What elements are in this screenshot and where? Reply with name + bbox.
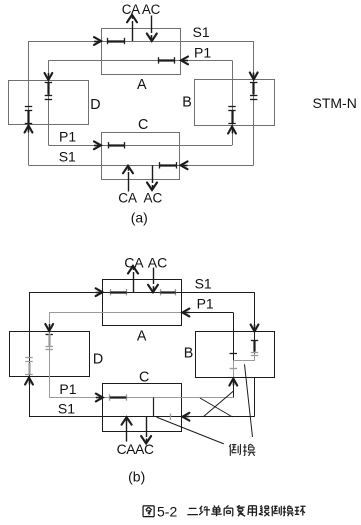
- svg-text:S1: S1: [59, 148, 76, 164]
- node A drop line CA with up arrow: [132, 21, 134, 41]
- switch in D on S1 vertical: [25, 106, 32, 108]
- wire S1 through node B: [253, 80, 255, 126]
- switch in D on P1 vertical: [45, 82, 52, 84]
- node D box (b): [10, 332, 90, 377]
- wire S1 through node D: [28, 80, 30, 125]
- node C drop line AC with down arrow: [152, 165, 154, 183]
- switch in A on S1 (left): [107, 38, 109, 44]
- wire P1 through node D: [48, 80, 50, 125]
- wire P1 right vertical (up into B): [232, 126, 234, 146]
- wire P1 bottom segment (D to C): [48, 145, 101, 147]
- wire P1 through node C (b): [103, 397, 182, 399]
- arrow P1 into A right (b): [182, 312, 189, 314]
- label daohuan (switchover) chinese: [229, 444, 231, 447]
- node C add line CA with up arrow (b): [126, 422, 128, 442]
- tick on S1 in C (b): [170, 414, 172, 420]
- svg-text:C: C: [139, 369, 149, 385]
- switch in D on S1 vertical gray (b): [25, 357, 32, 359]
- wire S1 top-left vertical (D up): [28, 41, 30, 80]
- wire loopback vertical up in B (b): [233, 332, 235, 361]
- wire loopback in C from P1 to S1 (b): [153, 398, 155, 417]
- svg-text:AC: AC: [148, 254, 167, 270]
- svg-text:D: D: [93, 351, 103, 367]
- node C add line CA with up arrow: [128, 172, 130, 192]
- wire S1 top segment (b): [29, 292, 255, 294]
- svg-text:CAAC: CAAC: [117, 442, 154, 457]
- arrow P1 into B bottom: [232, 127, 234, 134]
- wire S1 segment C to D (b): [29, 416, 103, 418]
- wire S1 right vertical into B (b): [254, 292, 256, 331]
- wire S1 through node C: [101, 165, 180, 167]
- wire S1 through node A (b): [103, 292, 182, 294]
- node A box (b): [103, 280, 182, 326]
- arrow P1 into D top (b): [49, 324, 51, 331]
- node C box: [102, 133, 180, 180]
- wire S1 through node D (b): [29, 331, 31, 377]
- caption title chinese er xian dan xiang fu yong duan dao huan huan: [189, 507, 197, 509]
- svg-text:CA: CA: [118, 190, 137, 205]
- svg-text:B: B: [182, 94, 192, 110]
- switch in B on P1 vertical: [228, 106, 235, 108]
- switch in B on S1 vertical (b): [251, 340, 258, 342]
- wire P1 left vertical into D gray (b): [49, 313, 51, 332]
- switch in D on P1 vertical gray (b): [46, 334, 53, 336]
- svg-text:CA: CA: [124, 254, 144, 270]
- wire S1 bottom segment (B to C to D): [29, 165, 254, 167]
- svg-text:(a): (a): [131, 210, 148, 226]
- svg-text:S1: S1: [195, 275, 212, 291]
- switch in C on P1 (b): [109, 394, 111, 400]
- wire S1 upper part in B (b): [254, 332, 256, 354]
- leader line to switch in C (b): [157, 417, 224, 444]
- wire S1 left vertical up into D (b): [29, 377, 31, 417]
- wire P1 through node A: [101, 60, 180, 62]
- wire P1 right top vertical (B up): [232, 60, 234, 79]
- svg-text:CA AC: CA AC: [122, 2, 161, 17]
- wire P1 left segment (A to D): [48, 60, 101, 62]
- wire P1 segment C to cut (b): [181, 397, 233, 399]
- svg-text:AC: AC: [144, 190, 163, 205]
- wire P1 return top segment into A (b): [181, 312, 233, 314]
- svg-text:P1: P1: [59, 129, 76, 145]
- switch in C on P1 (left): [108, 142, 110, 148]
- node A add line AC with down arrow: [151, 16, 153, 34]
- node A add line AC with down arrow (b): [153, 268, 155, 284]
- svg-text:A: A: [137, 329, 147, 345]
- wire S1 bottom-right vertical (B down): [253, 126, 255, 166]
- wire P1 left segment A to D gray (b): [49, 312, 102, 314]
- svg-text:P1: P1: [197, 295, 214, 311]
- arrow S1 into A left: [94, 41, 101, 43]
- arrow S1 into D bottom: [28, 126, 30, 133]
- arrow P1 into D top: [48, 73, 50, 80]
- arrow S1 into C right: [181, 165, 188, 167]
- wire S1 top segment (D to A to B): [29, 41, 254, 43]
- arrow old P1 into B bottom (b): [233, 379, 235, 386]
- arrow S1 into D bottom (b): [29, 378, 31, 385]
- arrow S1 into A left (b): [96, 292, 103, 294]
- node A drop line CA with up arrow (b): [133, 272, 135, 292]
- wire gray path S1 to loopback in B (b): [254, 354, 256, 361]
- wire S1 below B vertical (b): [254, 378, 256, 417]
- node D box: [9, 81, 89, 125]
- switch in A on S1 left (b): [110, 289, 112, 295]
- arrow P1 into C left: [94, 145, 101, 147]
- wire P1 top segment (B to A): [180, 60, 232, 62]
- svg-text:S1: S1: [58, 401, 75, 417]
- arrow P1 into A right: [181, 60, 188, 62]
- svg-text:STM-N: STM-N: [313, 95, 357, 111]
- arrow P1 into C left (b): [96, 397, 103, 399]
- wire P1 through node C: [101, 145, 180, 147]
- svg-text:B: B: [184, 346, 194, 362]
- wire P1 return B to A vertical (b): [233, 313, 235, 332]
- wire old P1 below B black stub (b): [233, 378, 235, 398]
- svg-text:C: C: [138, 117, 148, 133]
- wire P1 through node B: [232, 80, 234, 126]
- arrow S1 into C right (b): [182, 416, 189, 418]
- arrow S1 into B top (b): [254, 325, 256, 332]
- wire P1 bottom-left vertical gray (b): [49, 377, 51, 398]
- node B box: [195, 80, 275, 126]
- svg-text:P1: P1: [194, 45, 211, 61]
- wire S1 left vertical (up into D): [28, 125, 30, 166]
- node B box (b): [196, 332, 275, 378]
- switch in B on S1 vertical: [250, 82, 257, 84]
- node C drop line AC with down arrow (b): [146, 417, 148, 437]
- svg-text:S1: S1: [193, 24, 210, 40]
- svg-text:D: D: [90, 97, 100, 113]
- wire S1 through node C (b): [103, 416, 182, 418]
- caption figure number tu 5-2: [143, 505, 154, 507]
- wire old P1 below B gray with tick (b): [233, 361, 235, 378]
- wire S1 bottom segment cut zone to C (b): [181, 416, 254, 418]
- svg-text:A: A: [137, 77, 147, 93]
- switch in C on S1 (right): [159, 162, 161, 168]
- wire S1 right vertical (into B): [253, 41, 255, 80]
- node C box (b): [103, 384, 182, 432]
- wire P1 through node A gray (b): [103, 312, 182, 314]
- fiber cut cross X between B and C (b): [200, 398, 233, 417]
- node A box: [102, 29, 181, 75]
- wire P1 bottom-right segment (C to B): [180, 145, 233, 147]
- tick on loopback vertical in B (b): [230, 353, 237, 355]
- wire P1 bottom-left vertical (D down): [48, 125, 50, 146]
- svg-text:(b): (b): [128, 469, 145, 485]
- wire S1 top-left vertical (b): [29, 292, 31, 331]
- wire S1 through node A: [101, 41, 180, 43]
- wire P1 left vertical (down into D): [48, 60, 50, 80]
- wire P1 through node D gray (b): [49, 331, 51, 377]
- switch in A on P1 (right): [158, 57, 160, 63]
- svg-text:P1: P1: [59, 381, 76, 397]
- arrow S1 into B top: [253, 73, 255, 80]
- svg-text:5-2: 5-2: [157, 504, 177, 520]
- switch in A on S1 right (b): [160, 289, 162, 295]
- leader line to switch in B (b): [245, 364, 253, 437]
